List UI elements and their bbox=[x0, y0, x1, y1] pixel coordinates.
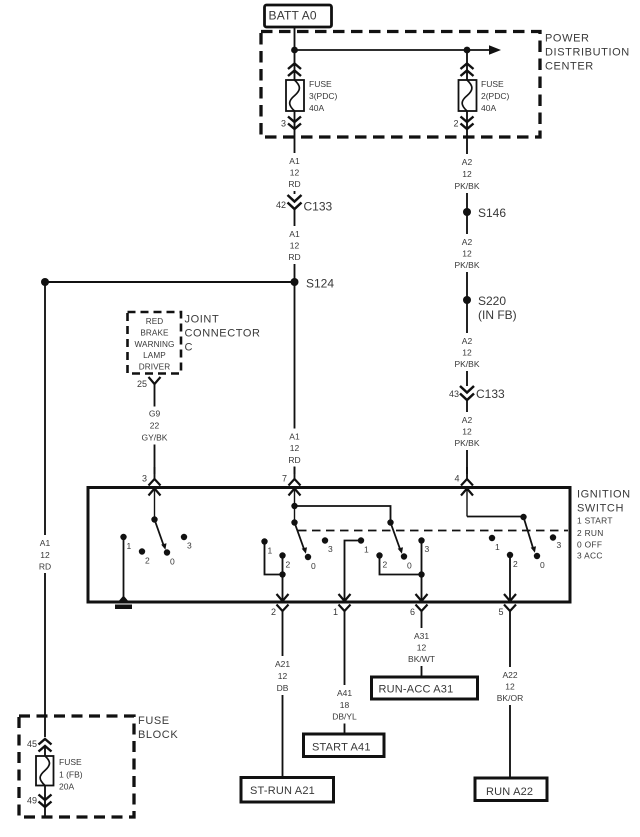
wire contact 3 to pin 6 bbox=[421, 541, 423, 601]
svg-text:PK/BK: PK/BK bbox=[454, 359, 479, 369]
pin 2 connector chevrons below fuse 2 bbox=[461, 117, 474, 130]
wire pin 1 to START A41 bbox=[344, 611, 346, 734]
switch 4 contact 2 bbox=[507, 552, 518, 569]
pin 7 connector fork bbox=[282, 467, 301, 486]
pin 3 connector chevrons below fuse 3 bbox=[288, 117, 301, 130]
switch 3 pivot bbox=[387, 519, 393, 525]
wire label A2 12 PK/BK bbox=[451, 333, 483, 371]
svg-text:12: 12 bbox=[290, 443, 300, 453]
junction node on pin 2 line bbox=[279, 571, 285, 577]
switch 2 contact 2 bbox=[279, 552, 290, 569]
switch 3 contact 2 bbox=[376, 552, 387, 569]
svg-text:C133: C133 bbox=[304, 200, 333, 214]
switch 2 pivot bbox=[291, 519, 297, 525]
svg-text:2: 2 bbox=[383, 560, 388, 570]
pin 3 arrowhead inside switch bbox=[149, 489, 161, 520]
svg-text:A31: A31 bbox=[414, 631, 429, 641]
wire C133 to S124 bbox=[294, 209, 296, 282]
svg-text:LAMP: LAMP bbox=[143, 351, 166, 360]
wire pin 5 to RUN A22 bbox=[509, 611, 511, 778]
switch 1 lever to position 0 bbox=[155, 520, 167, 550]
svg-text:A1: A1 bbox=[40, 538, 51, 548]
svg-text:S124: S124 bbox=[306, 277, 334, 291]
pin 5 fork below switch bbox=[498, 605, 516, 618]
wire label A1 12 RD bbox=[279, 226, 310, 264]
wire S124 down to ignition switch pin 7 bbox=[294, 282, 296, 474]
svg-text:WARNING: WARNING bbox=[135, 340, 175, 349]
svg-text:S146: S146 bbox=[478, 206, 506, 220]
destination box RUN-ACC A31 bbox=[372, 677, 478, 699]
svg-text:12: 12 bbox=[417, 643, 427, 653]
svg-text:A41: A41 bbox=[337, 688, 352, 698]
svg-text:RD: RD bbox=[288, 455, 300, 465]
wire fuse 3 to PDC edge bbox=[294, 111, 296, 140]
switch 1 contact 1 bbox=[120, 534, 131, 551]
svg-text:2 RUN: 2 RUN bbox=[577, 528, 604, 538]
svg-text:0: 0 bbox=[311, 561, 316, 571]
svg-text:A22: A22 bbox=[502, 670, 517, 680]
wire PDC to S146 bbox=[466, 140, 468, 212]
svg-text:DISTRIBUTION: DISTRIBUTION bbox=[545, 47, 630, 59]
pin 2 arrowhead inside switch bbox=[277, 594, 289, 601]
destination box ST-RUN A21 bbox=[241, 778, 334, 803]
wire contact 1 to pin 2 line bbox=[265, 542, 283, 575]
svg-text:43: 43 bbox=[449, 389, 459, 399]
svg-text:3: 3 bbox=[425, 544, 430, 554]
svg-text:1 (FB): 1 (FB) bbox=[59, 770, 83, 780]
svg-text:1: 1 bbox=[364, 545, 369, 555]
svg-text:6: 6 bbox=[410, 607, 415, 617]
svg-text:12: 12 bbox=[462, 169, 472, 179]
svg-text:20A: 20A bbox=[59, 782, 74, 792]
wire fuse 2 to PDC edge bbox=[466, 111, 468, 140]
wire contact 1 to case ground bbox=[123, 537, 125, 599]
svg-text:A2: A2 bbox=[462, 336, 473, 346]
wire fuse 1 to fuse block edge bbox=[44, 786, 46, 818]
svg-text:3: 3 bbox=[281, 119, 286, 129]
svg-text:12: 12 bbox=[290, 241, 300, 251]
svg-text:12: 12 bbox=[462, 249, 472, 259]
svg-text:G9: G9 bbox=[149, 409, 161, 419]
svg-text:3: 3 bbox=[557, 540, 562, 550]
svg-text:FUSE: FUSE bbox=[59, 757, 82, 767]
wire feed to section 4 pivot bbox=[467, 516, 524, 518]
svg-text:3 ACC: 3 ACC bbox=[577, 551, 603, 561]
switch 3 contact 3 bbox=[418, 537, 429, 554]
svg-text:2(PDC): 2(PDC) bbox=[481, 91, 510, 101]
svg-text:A21: A21 bbox=[275, 659, 290, 669]
svg-text:A1: A1 bbox=[289, 156, 300, 166]
switch 1 contact 3 bbox=[181, 534, 192, 551]
svg-text:4: 4 bbox=[454, 474, 459, 484]
svg-text:1: 1 bbox=[127, 541, 132, 551]
wire bus to fuse 2 bbox=[466, 50, 468, 80]
connector chevrons above fuse 2 bbox=[461, 64, 474, 77]
switch 2 lever to position 0 bbox=[295, 523, 308, 554]
switch 1 contact 0 bbox=[164, 549, 175, 566]
svg-text:0: 0 bbox=[540, 560, 545, 570]
switch 2 contact 1 bbox=[261, 538, 272, 555]
pin 4 connector fork bbox=[454, 467, 473, 486]
svg-text:RD: RD bbox=[39, 562, 51, 572]
svg-text:A2: A2 bbox=[462, 237, 473, 247]
pin 7 arrowhead inside switch bbox=[289, 489, 301, 523]
svg-text:S220: S220 bbox=[478, 294, 506, 308]
svg-text:A2: A2 bbox=[462, 157, 473, 167]
label FUSE BLOCK bbox=[138, 715, 178, 741]
pin 6 fork below switch bbox=[410, 605, 428, 618]
svg-text:12: 12 bbox=[505, 682, 515, 692]
svg-text:1: 1 bbox=[495, 542, 500, 552]
wire contact 2 to pin 2 bbox=[282, 556, 284, 601]
svg-text:DB: DB bbox=[277, 683, 289, 693]
wire S124 branch to left bbox=[45, 281, 295, 283]
svg-text:12: 12 bbox=[462, 427, 472, 437]
fuse F3 (PDC) bbox=[286, 80, 304, 111]
label IGNITION SWITCH bbox=[577, 489, 631, 561]
wire label A41 18 DB/YL bbox=[329, 685, 360, 724]
switch 1 pivot bbox=[151, 516, 157, 522]
wire contact 2 to pin 6 line bbox=[380, 556, 422, 575]
pin 1 arrowhead inside switch bbox=[339, 594, 351, 601]
pin 6 arrowhead inside switch bbox=[416, 594, 428, 601]
svg-text:12: 12 bbox=[40, 550, 50, 560]
svg-text:40A: 40A bbox=[309, 103, 324, 113]
label POWER DISTRIBUTION CENTER bbox=[545, 33, 630, 73]
wire pin 2 to ST-RUN A21 bbox=[282, 611, 284, 779]
switch 3 contact 0 bbox=[401, 553, 412, 570]
svg-text:RD: RD bbox=[288, 252, 300, 262]
pin 45 connector chevrons bbox=[27, 739, 52, 752]
label JOINT CONNECTOR C bbox=[185, 314, 261, 354]
splice S220 (IN FB) bbox=[463, 294, 517, 322]
svg-text:FUSE: FUSE bbox=[138, 715, 170, 727]
svg-text:12: 12 bbox=[462, 348, 472, 358]
svg-text:CONNECTOR: CONNECTOR bbox=[185, 328, 261, 340]
joint connector C dashed box bbox=[128, 312, 182, 374]
svg-text:BLOCK: BLOCK bbox=[138, 729, 178, 741]
wire label G9 22 GY/BK bbox=[139, 407, 170, 445]
wire S220 to C133 right half bbox=[466, 300, 468, 386]
fuse F1 (FB) bbox=[36, 756, 54, 786]
junction node on pin 6 line bbox=[418, 571, 424, 577]
svg-text:CENTER: CENTER bbox=[545, 61, 594, 73]
svg-text:BK/OR: BK/OR bbox=[497, 693, 523, 703]
fuse 2 value label bbox=[481, 79, 510, 113]
wire label A31 12 BK/WT bbox=[406, 628, 437, 666]
connector C133 left half (pin 42) bbox=[276, 195, 333, 214]
wire to fuse 1 bbox=[44, 746, 46, 756]
wire label A21 12 DB bbox=[267, 656, 298, 695]
junction node at fuse 2 feed bbox=[464, 47, 471, 54]
svg-text:2: 2 bbox=[513, 559, 518, 569]
svg-text:49: 49 bbox=[27, 796, 37, 806]
svg-text:DB/YL: DB/YL bbox=[332, 712, 357, 722]
svg-text:3(PDC): 3(PDC) bbox=[309, 91, 338, 101]
svg-text:5: 5 bbox=[498, 607, 503, 617]
svg-text:40A: 40A bbox=[481, 103, 496, 113]
fuse block dashed box bbox=[19, 716, 134, 817]
pin 5 arrowhead inside switch bbox=[504, 594, 516, 601]
svg-text:3: 3 bbox=[142, 474, 147, 484]
svg-text:12: 12 bbox=[278, 671, 288, 681]
junction node feed split bbox=[291, 503, 297, 509]
splice S146 bbox=[463, 206, 506, 220]
svg-text:2: 2 bbox=[286, 560, 291, 570]
wire label A1 12 RD bbox=[279, 153, 310, 191]
switch 3 lever to position 0 bbox=[391, 523, 404, 554]
svg-text:2: 2 bbox=[145, 556, 150, 566]
wire label A2 12 PK/BK bbox=[451, 234, 483, 272]
svg-text:25: 25 bbox=[137, 379, 147, 389]
svg-text:18: 18 bbox=[340, 700, 350, 710]
ground symbol bbox=[115, 596, 132, 610]
svg-text:PK/BK: PK/BK bbox=[454, 181, 479, 191]
bus wire with arrow bbox=[295, 45, 502, 55]
svg-text:12: 12 bbox=[290, 168, 300, 178]
svg-text:1: 1 bbox=[268, 546, 273, 556]
fuse F2 (PDC) bbox=[459, 80, 477, 111]
svg-text:DRIVER: DRIVER bbox=[139, 363, 171, 372]
svg-text:A1: A1 bbox=[289, 229, 300, 239]
wire contact 1 to pin 1 bbox=[345, 541, 362, 601]
svg-text:RD: RD bbox=[288, 179, 300, 189]
svg-text:C: C bbox=[185, 342, 194, 354]
svg-text:RUN A22: RUN A22 bbox=[486, 786, 533, 798]
switch 4 lever to position 0 bbox=[524, 517, 537, 553]
dashed gang line bbox=[298, 530, 568, 532]
wire contact 2 to pin 5 bbox=[509, 555, 511, 601]
svg-text:JOINT: JOINT bbox=[185, 314, 220, 326]
wire S146 to S220 bbox=[466, 212, 468, 300]
pin 25 connector fork below joint connector bbox=[137, 377, 161, 406]
svg-text:POWER: POWER bbox=[545, 33, 590, 45]
svg-text:1: 1 bbox=[333, 607, 338, 617]
svg-text:45: 45 bbox=[27, 739, 37, 749]
svg-text:PK/BK: PK/BK bbox=[454, 438, 479, 448]
connector C133 right half (pin 43) bbox=[449, 386, 505, 401]
pin 49 connector chevrons bbox=[27, 795, 52, 808]
svg-text:RUN-ACC A31: RUN-ACC A31 bbox=[379, 684, 454, 696]
svg-text:ST-RUN A21: ST-RUN A21 bbox=[250, 785, 315, 797]
junction node left end bbox=[41, 278, 49, 286]
wire label A22 12 BK/OR bbox=[495, 667, 526, 705]
fuse 3 value label bbox=[309, 79, 338, 113]
svg-text:FUSE: FUSE bbox=[309, 79, 332, 89]
destination box START A41 bbox=[304, 734, 385, 757]
destination box RUN A22 bbox=[475, 778, 547, 801]
svg-text:22: 22 bbox=[150, 421, 160, 431]
switch 4 contact 3 bbox=[550, 534, 562, 550]
svg-text:A1: A1 bbox=[289, 432, 300, 442]
switch 1 contact 2 bbox=[139, 548, 150, 565]
wire PDC to C133 bbox=[294, 140, 296, 194]
svg-text:PK/BK: PK/BK bbox=[454, 260, 479, 270]
wire label A2 12 PK/BK bbox=[451, 412, 483, 450]
switch 2 contact 3 bbox=[322, 537, 333, 554]
joint connector C internal label bbox=[135, 317, 175, 372]
svg-text:C133: C133 bbox=[476, 387, 505, 401]
svg-text:0: 0 bbox=[170, 557, 175, 567]
splice S124 bbox=[291, 277, 335, 291]
switch 4 contact 0 bbox=[534, 553, 545, 570]
svg-text:0 OFF: 0 OFF bbox=[577, 540, 602, 550]
svg-text:1 START: 1 START bbox=[577, 516, 613, 526]
power distribution center dashed box bbox=[261, 32, 540, 138]
pin 4 arrowhead inside switch bbox=[461, 489, 473, 517]
svg-text:IGNITION: IGNITION bbox=[577, 489, 631, 501]
wire BATT A0 down to bus bbox=[294, 27, 296, 50]
switch 4 contact 1 bbox=[489, 535, 500, 552]
wire bus to fuse 3 bbox=[294, 50, 296, 80]
svg-text:42: 42 bbox=[276, 200, 286, 210]
wire label A1 12 RD bbox=[279, 429, 310, 467]
svg-text:3: 3 bbox=[328, 544, 333, 554]
wire label A1 12 RD (left branch) bbox=[30, 535, 60, 573]
svg-text:RED: RED bbox=[146, 317, 164, 326]
pin 1 fork below switch bbox=[333, 605, 351, 618]
battery node BATT A0 bbox=[265, 5, 332, 27]
svg-text:BRAKE: BRAKE bbox=[140, 329, 169, 338]
wire feed link section2 to section3 bbox=[295, 506, 391, 523]
svg-text:(IN FB): (IN FB) bbox=[478, 308, 517, 322]
switch 3 contact 1 bbox=[358, 537, 369, 554]
svg-text:SWITCH: SWITCH bbox=[577, 503, 624, 515]
pin 2 fork below switch bbox=[271, 605, 289, 618]
svg-text:BK/WT: BK/WT bbox=[408, 654, 435, 664]
junction node at fuse 3 feed bbox=[291, 47, 298, 54]
svg-text:7: 7 bbox=[282, 474, 287, 484]
svg-text:GY/BK: GY/BK bbox=[142, 433, 168, 443]
svg-text:START A41: START A41 bbox=[312, 742, 371, 754]
switch 4 pivot bbox=[520, 514, 526, 520]
svg-text:3: 3 bbox=[187, 541, 192, 551]
fuse 1 value label bbox=[59, 757, 83, 792]
svg-text:0: 0 bbox=[407, 561, 412, 571]
svg-text:FUSE: FUSE bbox=[481, 79, 504, 89]
connector chevrons above fuse 3 bbox=[288, 64, 301, 77]
svg-text:2: 2 bbox=[453, 119, 458, 129]
svg-text:A2: A2 bbox=[462, 415, 473, 425]
pin 3 connector fork bbox=[142, 467, 161, 486]
wire left branch down to fuse block bbox=[44, 282, 46, 737]
svg-text:BATT A0: BATT A0 bbox=[269, 9, 317, 23]
switch 2 contact 0 bbox=[305, 554, 316, 571]
wire label A2 12 PK/BK bbox=[451, 154, 483, 193]
ignition switch box bbox=[88, 488, 570, 603]
svg-text:2: 2 bbox=[271, 607, 276, 617]
wire joint connector to switch pin 3 bbox=[154, 406, 156, 474]
wire pin 6 to RUN-ACC A31 bbox=[421, 611, 423, 676]
wire C133 to ignition switch pin 4 bbox=[466, 400, 468, 474]
